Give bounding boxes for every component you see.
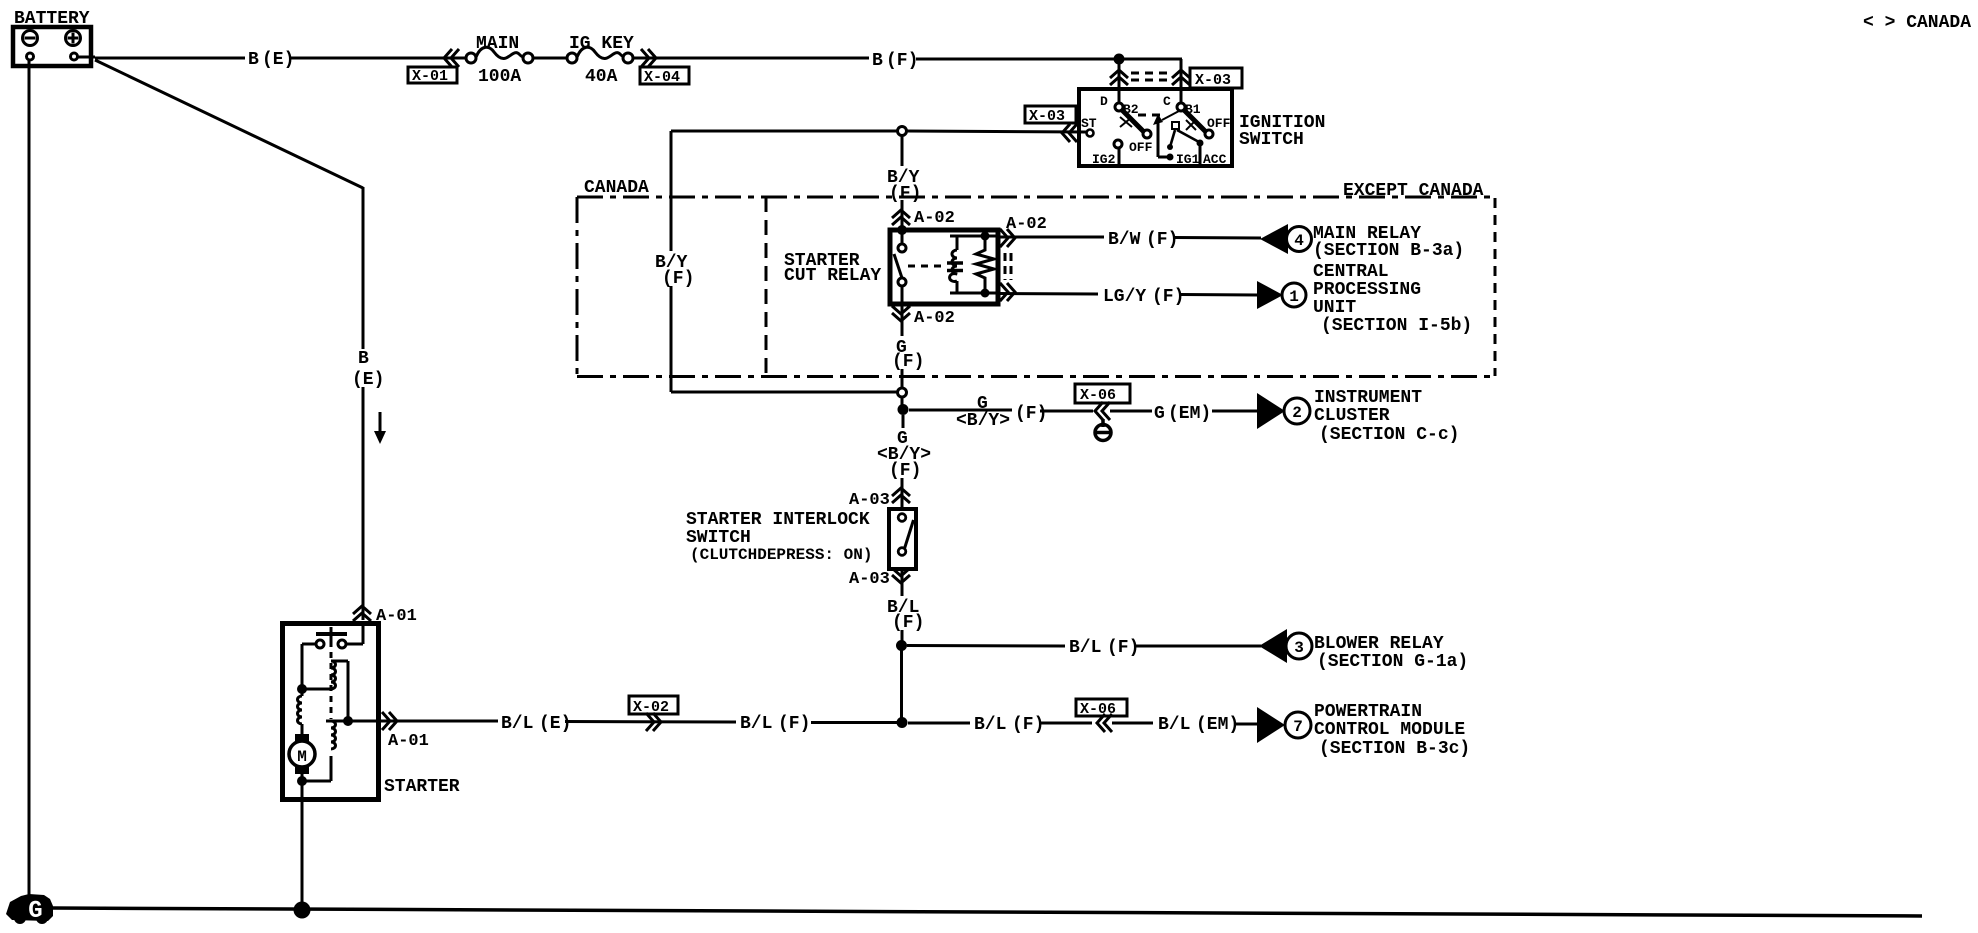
svg-text:(SECTION B-3a): (SECTION B-3a) [1313,241,1464,261]
svg-text:SWITCH: SWITCH [1239,130,1304,150]
svg-text:OFF: OFF [1207,116,1231,131]
svg-text:X-03: X-03 [1195,72,1231,89]
svg-text:SWITCH: SWITCH [686,528,751,548]
svg-text:CENTRAL: CENTRAL [1313,262,1389,282]
svg-text:G: G [1154,404,1165,424]
svg-text:A-01: A-01 [388,732,429,751]
svg-text:(F): (F) [1012,715,1044,735]
svg-text:CONTROL MODULE: CONTROL MODULE [1314,720,1465,740]
svg-text:CUT RELAY: CUT RELAY [784,266,881,286]
svg-text:B: B [358,349,369,369]
svg-text:B/L: B/L [1069,638,1101,658]
svg-text:B/L: B/L [740,714,772,734]
svg-text:X-02: X-02 [633,699,669,716]
svg-text:ACC: ACC [1203,152,1227,167]
svg-text:(F): (F) [889,461,921,481]
svg-text:(SECTION B-3c): (SECTION B-3c) [1319,739,1470,759]
svg-text:MAIN: MAIN [476,34,519,54]
svg-text:D: D [1100,94,1108,109]
svg-text:BLOWER RELAY: BLOWER RELAY [1314,634,1444,654]
svg-text:40A: 40A [585,67,618,87]
svg-text:IG2: IG2 [1092,152,1116,167]
svg-text:IG1: IG1 [1176,152,1200,167]
svg-text:A-03: A-03 [849,491,890,510]
svg-text:3: 3 [1294,639,1304,657]
svg-text:A-01: A-01 [376,607,417,626]
svg-text:(EM): (EM) [1196,715,1239,735]
svg-text:A-02: A-02 [1006,215,1047,234]
svg-text:< > CANADA: < > CANADA [1863,13,1971,33]
svg-text:1: 1 [1289,288,1299,306]
svg-text:A-02: A-02 [914,209,955,228]
svg-text:<B/Y>: <B/Y> [956,411,1010,431]
svg-text:B: B [872,51,883,71]
svg-text:2: 2 [1292,404,1302,422]
svg-text:(F): (F) [1146,230,1178,250]
svg-text:LG/Y: LG/Y [1103,287,1146,307]
svg-text:UNIT: UNIT [1313,298,1356,318]
svg-text:100A: 100A [478,67,521,87]
svg-text:OFF: OFF [1129,140,1153,155]
svg-text:(E): (E) [352,370,384,390]
svg-text:PROCESSING: PROCESSING [1313,280,1421,300]
svg-text:B/L: B/L [1158,715,1190,735]
svg-text:INSTRUMENT: INSTRUMENT [1314,388,1422,408]
svg-text:B/L: B/L [974,715,1006,735]
svg-text:(E): (E) [262,50,294,70]
svg-text:A-02: A-02 [914,309,955,328]
svg-text:(E): (E) [539,714,571,734]
svg-text:X-04: X-04 [644,69,680,86]
svg-text:(CLUTCHDEPRESS: ON): (CLUTCHDEPRESS: ON) [690,546,872,564]
svg-text:X-03: X-03 [1029,108,1065,125]
svg-text:B/W: B/W [1108,230,1141,250]
svg-text:(F): (F) [778,714,810,734]
svg-text:B: B [248,50,259,70]
svg-text:(F): (F) [1152,287,1184,307]
svg-text:STARTER: STARTER [384,777,460,797]
svg-text:X-01: X-01 [412,68,448,85]
svg-text:CANADA: CANADA [584,178,649,198]
svg-text:POWERTRAIN: POWERTRAIN [1314,702,1422,722]
svg-text:(F): (F) [1015,404,1047,424]
svg-text:(F): (F) [1107,638,1139,658]
svg-text:CLUSTER: CLUSTER [1314,406,1390,426]
svg-text:STARTER INTERLOCK: STARTER INTERLOCK [686,510,870,530]
svg-text:(SECTION C-c): (SECTION C-c) [1319,425,1459,445]
svg-text:G: G [28,898,42,925]
svg-text:4: 4 [1294,232,1304,250]
svg-text:(EM): (EM) [1168,404,1211,424]
svg-text:7: 7 [1293,718,1303,736]
svg-text:X-06: X-06 [1080,387,1116,404]
svg-text:(SECTION G-1a): (SECTION G-1a) [1317,652,1468,672]
svg-text:B/L: B/L [501,714,533,734]
svg-text:(SECTION I-5b): (SECTION I-5b) [1321,316,1472,336]
svg-text:(F): (F) [886,51,918,71]
svg-text:M: M [297,748,307,766]
svg-text:A-03: A-03 [849,570,890,589]
svg-text:(F): (F) [892,613,924,633]
svg-text:(F): (F) [892,352,924,372]
svg-text:(F): (F) [662,269,694,289]
svg-text:(F): (F) [889,184,921,204]
svg-text:C: C [1163,94,1171,109]
